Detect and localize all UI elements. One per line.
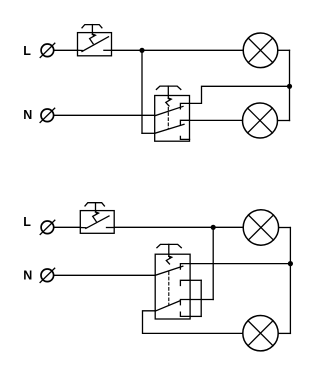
wire bottom contact of U2 to right rail — [190, 315, 201, 317]
wire right riser to lamp E2 — [278, 120, 290, 122]
upper fixed contact of U1 — [180, 103, 189, 109]
wire node A drop down — [141, 50, 143, 133]
wire right riser to lamp E4 — [278, 332, 290, 334]
right riser wire (top circuit) — [289, 50, 291, 120]
lamp E2 (circle with cross) — [243, 103, 278, 138]
junction dot node C — [211, 225, 216, 230]
actuator hat of S2 — [85, 203, 104, 206]
terminal N1 (circle with slash) — [40, 108, 55, 122]
actuator stem of S1 — [91, 25, 93, 35]
wire lamp E1 to right riser — [278, 49, 290, 51]
bottom fixed contact of U2 — [180, 312, 190, 316]
lead wire inside S2 — [80, 227, 86, 229]
zigzag of U2 — [166, 256, 171, 264]
zigzag of S2 — [93, 212, 99, 222]
junction dot node D — [288, 261, 293, 266]
blade of S1 — [82, 37, 109, 52]
wire L2 to switch S2 — [54, 226, 80, 228]
actuator stem of S2 — [95, 203, 97, 212]
upper fixed contact of U2 — [180, 264, 190, 270]
upper blade of U2 — [155, 266, 183, 275]
wire node C drop to third contact row — [212, 227, 214, 299]
lower blade of U1 — [155, 124, 184, 133]
lower blade of U2 — [155, 301, 180, 311]
wire lamp E3 to right riser — [279, 227, 291, 229]
wire node C to lamp E3 — [213, 226, 243, 228]
svg-text:N: N — [23, 108, 32, 122]
svg-text:N: N — [23, 269, 32, 283]
terminal N2 (circle with slash) — [40, 268, 55, 282]
wire N1 to switch box U1 — [54, 114, 155, 116]
lamp E4 (circle with cross) — [243, 316, 278, 351]
zigzag arrowhead of U2 — [169, 256, 173, 259]
actuator stem of U2 — [168, 244, 170, 256]
zigzag of U1 — [166, 98, 171, 106]
actuator hat of U2 — [157, 244, 181, 247]
zigzag arrowhead of S2 — [96, 211, 100, 215]
terminal L2 (circle with slash) — [40, 220, 55, 234]
actuator hat of S1 — [82, 25, 102, 28]
lamp E3 (circle with cross) — [243, 210, 278, 245]
junction dot node A — [139, 48, 144, 53]
wire middle contact of U1 to lamp E2 — [190, 119, 243, 121]
wire upper contact of U1 to node B — [190, 86, 290, 103]
zigzag arrowhead of U1 — [168, 97, 172, 100]
terminal L1 (circle with slash) — [40, 43, 55, 57]
svg-text:L: L — [23, 44, 31, 58]
svg-text:L: L — [23, 215, 31, 229]
two-gang switch box U2 (bottom circuit) — [155, 244, 190, 319]
wire L1 to switch S1 — [54, 49, 78, 51]
zigzag arrowhead of S1 — [92, 33, 96, 37]
wire into lower pivot of switch box U1 — [142, 132, 155, 134]
actuator stem of U1 — [167, 86, 169, 98]
wire third contact of U2 to node C drop — [190, 299, 213, 301]
fixed contact line of S1 — [104, 49, 112, 51]
middle fixed contact of U1 — [180, 120, 189, 125]
wire S2 to node C — [114, 226, 213, 228]
bottom fixed contact of U1 — [180, 136, 189, 139]
third fixed contact of U2 — [180, 300, 190, 305]
wire lower pivot of U2 to lamp E4 (left loop) — [143, 311, 243, 334]
blade of S2 — [86, 216, 109, 228]
lead wire inside S1 — [78, 49, 83, 51]
wire node A to lamp E1 — [142, 49, 243, 51]
upper blade of U1 — [155, 106, 183, 115]
junction dot node B — [287, 84, 292, 89]
right rail jumper of U2 — [200, 280, 202, 316]
zigzag (automatic actuation) of S1 — [90, 34, 96, 44]
switch S1 (single-pole switch, top circuit) — [78, 25, 112, 56]
two-gang switch box U1 (top circuit) — [155, 86, 190, 141]
wire middle contact of U2 to right rail — [190, 279, 201, 281]
fixed contact line of S2 — [107, 227, 115, 229]
switch S2 (single-pole switch, bottom circuit) — [80, 203, 114, 234]
mechanical link (dashed) of U1 — [167, 108, 169, 129]
mechanical link (dashed) of U2 — [168, 272, 170, 305]
right riser wire (bottom circuit) — [289, 228, 291, 334]
actuator hat of U1 — [156, 86, 180, 89]
wire N2 to switch box U2 — [54, 274, 155, 276]
middle fixed contact of U2 — [180, 280, 190, 285]
wire S1 to node A — [112, 49, 143, 51]
wire upper contact of U2 to node D — [190, 263, 290, 265]
lamp E1 (circle with cross) — [243, 33, 278, 68]
